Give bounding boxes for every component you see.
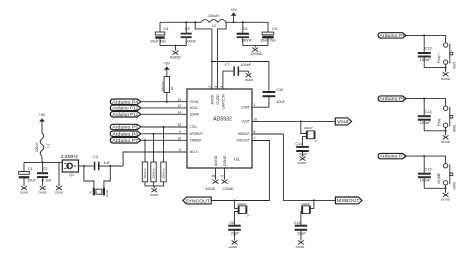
net flag Arduino P12 [110, 105, 141, 110]
wire crystal right branch [104, 166, 110, 188]
wire oscillator ground drop [58, 162, 60, 186]
svg-text:C5: C5 [185, 27, 190, 31]
svg-text:DGND: DGND [150, 193, 158, 197]
svg-text:STANDBY: STANDBY [190, 139, 202, 143]
wire MSBOUT net [252, 134, 335, 200]
svg-text:DVDD: DVDD [216, 94, 220, 105]
svg-text:Vout: Vout [337, 119, 350, 124]
net flag Arduino P5 [110, 124, 141, 129]
svg-text:L2: L2 [212, 24, 216, 28]
svg-text:Q1: Q1 [69, 173, 74, 177]
wire Arduino P12 to U1 [141, 107, 187, 109]
svg-text:JP: JP [247, 216, 250, 218]
svg-text:Arduino P9: Arduino P9 [379, 96, 406, 101]
svg-text:Arduino P7: Arduino P7 [112, 138, 139, 143]
svg-text:JP: JP [314, 141, 317, 143]
svg-text:12: 12 [177, 104, 181, 108]
capacitor C8 100nF [237, 22, 253, 45]
wire left supply rail [24, 161, 62, 163]
svg-text:VOUT: VOUT [242, 120, 251, 124]
svg-text:C8: C8 [243, 27, 248, 31]
svg-text:5: 5 [221, 175, 225, 177]
net flag Arduino P3 [378, 153, 406, 158]
svg-text:GND/JP: GND/JP [301, 203, 310, 206]
svg-text:4.8MHz: 4.8MHz [61, 154, 79, 159]
wire crystal left branch [84, 166, 94, 188]
svg-text:DGND: DGND [441, 140, 451, 144]
wire Arduino P9 to switch SW2 [406, 99, 446, 107]
svg-text:13: 13 [177, 98, 181, 102]
svg-text:C11: C11 [295, 142, 302, 146]
jumper JP1 Vout [301, 121, 318, 145]
svg-text:100uH: 100uH [208, 14, 219, 18]
svg-text:MCLK: MCLK [190, 150, 199, 154]
net flag Arduino P6 [110, 131, 141, 136]
svg-text:DGND: DGND [55, 191, 63, 195]
net flag Arduino P11 [110, 112, 141, 117]
svg-text:10nF: 10nF [276, 100, 285, 104]
inductor L1 100uH [35, 133, 50, 156]
wire analog rail top [160, 21, 201, 23]
power flag +5V main [230, 8, 237, 23]
ground AGND at C12 [296, 240, 306, 249]
svg-text:Arduino P3: Arduino P3 [379, 154, 406, 159]
capacitor C5 100nF [181, 22, 197, 45]
ground AGND at C11 [297, 157, 307, 166]
svg-text:FSYNC: FSYNC [190, 100, 200, 104]
wire DVDD pin 3 path [218, 22, 227, 89]
svg-text:SYNCOUT: SYNCOUT [185, 198, 210, 203]
net flag Arduino P4 [110, 99, 141, 104]
svg-text:C14: C14 [425, 110, 432, 114]
svg-text:DGND: DGND [251, 52, 262, 56]
svg-text:C4: C4 [164, 27, 169, 31]
switch SW3 On/Off [437, 164, 456, 190]
svg-text:100nF: 100nF [241, 39, 252, 43]
svg-text:11: 11 [212, 174, 216, 178]
svg-text:C10: C10 [276, 88, 283, 92]
net flag MSBOUT [335, 197, 362, 204]
wire switch bottom rail [424, 127, 445, 130]
junction L1/rail [42, 161, 44, 163]
svg-text:10uF Tan: 10uF Tan [150, 40, 166, 44]
svg-text:+5V: +5V [39, 113, 46, 117]
wire L1 to left rail [41, 156, 43, 162]
junction oscout right [109, 165, 111, 167]
wire CAP/2.5V pin 4 to C7 [223, 71, 233, 89]
svg-text:Freq-: Freq- [437, 118, 441, 126]
capacitor C9 10uF Tan [260, 22, 277, 45]
junction MSBOUT filter [313, 199, 315, 201]
power flag +5V FSYNC pull-up [164, 62, 171, 77]
ground AGND under U1 pin 11 [206, 168, 219, 191]
svg-text:DGND: DGND [20, 191, 28, 195]
svg-text:100nF: 100nF [420, 58, 431, 62]
svg-text:10: 10 [254, 117, 258, 121]
ground DGND under U1 pin 5 [222, 168, 234, 191]
svg-text:DGND: DGND [441, 198, 451, 202]
svg-text:10uF Tan: 10uF Tan [260, 39, 276, 43]
svg-text:MSBOUT: MSBOUT [238, 132, 250, 136]
svg-text:SCLK: SCLK [190, 106, 199, 110]
inductor L2 100uH [201, 14, 226, 28]
svg-text:10uF: 10uF [27, 179, 36, 183]
svg-text:Arduino P4: Arduino P4 [112, 99, 139, 104]
capacitor C3 1uF [93, 155, 110, 170]
svg-text:1uF: 1uF [103, 161, 110, 165]
junction C5 top [185, 21, 187, 23]
ground DGND at SW2 [441, 130, 451, 144]
svg-text:AGND: AGND [170, 55, 181, 59]
svg-text:10kOhm: 10kOhm [162, 168, 166, 179]
svg-text:AGND: AGND [206, 187, 216, 191]
svg-text:100uH: 100uH [35, 142, 39, 152]
svg-text:C1: C1 [28, 167, 33, 171]
ground DGND under C1 [20, 186, 28, 195]
wire pulldown common rail [145, 182, 164, 189]
svg-text:X1: X1 [91, 190, 93, 194]
wire Arduino P11 to U1 [141, 113, 187, 115]
switch SW2 Freq- [437, 106, 456, 132]
capacitor C13 100nF [418, 35, 432, 67]
svg-text:Arduino P6: Arduino P6 [112, 131, 139, 136]
svg-text:CTRL: CTRL [190, 125, 198, 129]
svg-text:7: 7 [254, 137, 256, 141]
capacitor C10 10nF [263, 88, 286, 104]
svg-text:C6: C6 [229, 221, 234, 225]
svg-text:On/Off: On/Off [437, 174, 441, 184]
wire pulldown drop P5 [163, 127, 165, 162]
svg-text:U1: U1 [234, 156, 240, 161]
junction AVDD/COMP rail [211, 61, 213, 63]
capacitor C2 0.1uF [37, 162, 52, 186]
svg-text:16: 16 [177, 137, 181, 141]
wire AVDD pin 2 path [195, 22, 212, 89]
svg-text:C2: C2 [43, 167, 48, 171]
ground DGND under oscillator [55, 186, 63, 195]
junction SYNCOUT filter [233, 200, 235, 202]
ground DGND at SW1 [441, 67, 451, 81]
svg-text:COMP: COMP [241, 105, 250, 109]
svg-text:MSBOUT: MSBOUT [337, 198, 360, 203]
capacitor C4 10uF Tan [150, 22, 168, 45]
resistor R2 10kOhm [151, 162, 156, 182]
svg-text:10kOhm: 10kOhm [160, 81, 164, 92]
wire digital rail top [226, 21, 268, 23]
svg-text:14: 14 [177, 111, 181, 115]
junction P7 pulldown [144, 139, 146, 141]
switch SW1 Freq+ [437, 43, 456, 69]
junction AGND rail [174, 45, 176, 47]
junction AVDD feed [194, 21, 196, 23]
svg-text:SW1: SW1 [452, 61, 456, 68]
junction P5 pulldown [163, 126, 165, 128]
svg-text:C13: C13 [425, 47, 432, 51]
wire switch bottom rail [424, 64, 445, 67]
resistor R3 10kOhm [161, 162, 166, 182]
wire MCLK net to U1 pin 6 [123, 152, 187, 166]
ground DGND under C2 [38, 186, 46, 195]
net flag Vout [335, 118, 351, 125]
svg-text:C9: C9 [272, 27, 277, 31]
svg-text:L1: L1 [46, 144, 50, 148]
svg-text:DGND: DGND [441, 77, 451, 81]
capacitor C12 22pF [294, 221, 308, 240]
wire VOUT net [252, 120, 335, 122]
junction P6 pulldown [153, 133, 155, 135]
svg-text:8: 8 [254, 130, 256, 134]
ground AGND filter [170, 51, 181, 60]
svg-text:100nF: 100nF [185, 40, 196, 44]
junction debounce C14 [423, 98, 425, 100]
svg-text:Arduino P8: Arduino P8 [379, 33, 406, 38]
wire Arduino P5 to U1 [141, 126, 187, 128]
svg-text:Arduino P12: Arduino P12 [112, 106, 139, 111]
svg-text:AGND: AGND [229, 245, 239, 249]
svg-text:AD5932: AD5932 [213, 117, 232, 123]
resistor R1 10kOhm [142, 162, 147, 182]
jumper JP3 SYNCOUT [234, 201, 249, 225]
wire AVDD to C10 [212, 62, 269, 91]
svg-text:DGND: DGND [223, 155, 227, 166]
svg-text:10kOhm: 10kOhm [143, 168, 147, 179]
svg-text:C12: C12 [294, 221, 301, 225]
svg-text:AGND: AGND [297, 161, 307, 165]
capacitor C7 100nF [225, 63, 252, 76]
svg-text:DGND: DGND [38, 191, 46, 195]
ground DGND pulldowns [150, 188, 158, 197]
net flag Arduino P7 [110, 138, 141, 143]
svg-text:AGND: AGND [214, 155, 218, 166]
svg-text:GND/JP: GND/JP [237, 203, 246, 206]
resistor R4 10kOhm [160, 77, 174, 102]
wire DGND rail C8/C9 [243, 46, 268, 48]
svg-text:R4: R4 [170, 86, 174, 90]
svg-text:C7: C7 [225, 63, 230, 67]
wire C3 right [100, 165, 124, 167]
wire C10 to COMP pin 1 [252, 97, 269, 107]
svg-text:SYNCOUT: SYNCOUT [237, 139, 251, 143]
svg-text:AVDD: AVDD [210, 94, 214, 104]
svg-text:GND/JP: GND/JP [304, 127, 313, 130]
svg-text:10kOhm: 10kOhm [152, 168, 156, 179]
svg-text:SDATA: SDATA [190, 113, 200, 117]
svg-text:9: 9 [179, 130, 181, 134]
ground DGND at C7 [245, 71, 253, 82]
wire Arduino P8 to switch SW1 [406, 35, 446, 43]
wire pulldown drop P7 [144, 140, 146, 162]
svg-text:6: 6 [179, 148, 181, 152]
wire Arduino P6 to U1 [141, 133, 187, 135]
capacitor C1 10uF [19, 162, 37, 186]
svg-text:SW3: SW3 [452, 182, 456, 189]
power flag +5V analog left [39, 113, 46, 133]
svg-text:+5V: +5V [164, 62, 171, 66]
wire Arduino P4 to U1 [141, 101, 187, 103]
ground DGND at SW3 [441, 187, 451, 201]
IC U1 AD5932 body [187, 89, 252, 168]
svg-text:C3: C3 [93, 155, 98, 159]
junction R4/FSYNC [166, 101, 168, 103]
svg-text:Arduino P5: Arduino P5 [112, 125, 139, 130]
wire pulldown drop P6 [153, 134, 155, 162]
svg-text:DGND: DGND [223, 187, 234, 191]
svg-text:C15: C15 [425, 167, 432, 171]
ground DGND filter right [251, 48, 262, 57]
capacitor C14 100nF [418, 99, 432, 131]
svg-text:100nF: 100nF [420, 121, 431, 125]
svg-text:AGND: AGND [296, 245, 306, 249]
crystal X1 [91, 188, 110, 197]
junction debounce C15 [423, 155, 425, 157]
svg-text:INTERRUPT: INTERRUPT [190, 132, 204, 136]
junction oscout left [83, 165, 85, 167]
junction C8 top [242, 21, 244, 23]
svg-text:Freq+: Freq+ [437, 54, 441, 63]
svg-text:100nF: 100nF [420, 179, 431, 183]
svg-text:SW2: SW2 [452, 125, 456, 132]
net flag SYNCOUT [183, 197, 211, 204]
wire SYNCOUT net [211, 141, 269, 201]
wire Arduino P7 to U1 [141, 139, 187, 141]
svg-text:DGND: DGND [245, 78, 253, 82]
ground AGND at C6 [229, 240, 239, 249]
svg-text:100nF: 100nF [240, 63, 251, 67]
svg-text:+5V: +5V [230, 8, 237, 12]
svg-text:Arduino P11: Arduino P11 [112, 112, 139, 117]
svg-text:15: 15 [177, 123, 181, 127]
junction debounce C13 [423, 34, 425, 36]
junction VOUT filter [300, 120, 302, 122]
jumper JP2 MSBOUT [301, 200, 314, 224]
capacitor C15 100nF [418, 156, 432, 188]
svg-text:CAP/2.5V: CAP/2.5V [222, 93, 226, 109]
svg-text:0.1uF: 0.1uF [42, 179, 52, 183]
wire switch bottom rail [424, 185, 445, 188]
net flag Arduino P9 [378, 96, 406, 101]
svg-text:1: 1 [254, 103, 256, 107]
capacitor C6 22pF [228, 221, 241, 240]
oscillator Q1 4.8MHz [61, 154, 79, 177]
net flag Arduino P8 [378, 33, 406, 38]
wire AGND rail C4/C5 [160, 46, 186, 51]
capacitor C11 22pF [295, 142, 308, 157]
wire oscillator output [79, 165, 94, 167]
svg-text:Crystal: Crystal [106, 189, 109, 197]
wire Arduino P3 to switch SW3 [406, 156, 446, 164]
